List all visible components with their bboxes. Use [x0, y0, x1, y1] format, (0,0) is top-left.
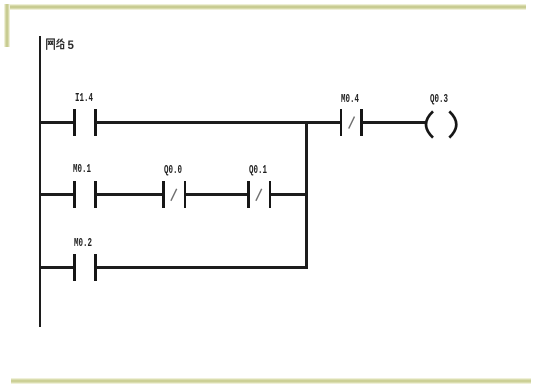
network title 网络 5: [46, 38, 76, 51]
label Q0.0: [164, 165, 192, 177]
left power rail: [39, 36, 42, 327]
decorative border left: [4, 4, 10, 47]
contact Q0.1 NC slash: [253, 186, 265, 203]
label M0.1: [73, 164, 101, 176]
contact I1.4 left bar: [73, 109, 76, 136]
rung 2 wire: M0.1 to Q0.0: [96, 193, 163, 196]
contact M0.4 right bar: [360, 109, 363, 136]
label I1.4: [75, 93, 103, 105]
decorative border bottom: [11, 378, 531, 384]
rung 2 wire: Q0.1 to junction: [271, 193, 308, 196]
label M0.4: [341, 94, 369, 106]
contact I1.4 right bar: [94, 109, 97, 136]
contact Q0.0 NC slash: [168, 186, 180, 203]
decorative border top: [5, 4, 526, 10]
contact Q0.1 right bar: [269, 181, 272, 208]
contact M0.2 right bar: [94, 254, 97, 281]
svg-text:5: 5: [68, 39, 75, 50]
junction vertical wire: [305, 121, 308, 269]
rung 2 wire: rail to M0.1: [40, 193, 75, 196]
contact M0.4 NC slash: [346, 114, 358, 131]
contact Q0.0 right bar: [184, 181, 187, 208]
rung 1 wire: M0.4 to coil: [362, 121, 427, 124]
coil Q0.3: [415, 107, 467, 143]
rung 1 wire: rail to I1.4: [40, 121, 75, 124]
label Q0.3: [430, 94, 458, 106]
contact Q0.1 left bar: [247, 181, 250, 208]
contact M0.1 left bar: [73, 181, 76, 208]
label M0.2: [74, 238, 102, 250]
contact M0.4 left bar: [340, 109, 343, 136]
contact Q0.0 left bar: [162, 181, 165, 208]
contact M0.2 left bar: [73, 254, 76, 281]
rung 1 wire: I1.4 to M0.4: [96, 121, 341, 124]
label Q0.1: [249, 165, 277, 177]
contact M0.1 right bar: [94, 181, 97, 208]
rung 3 wire: M0.2 to junction: [96, 266, 308, 269]
rung 3 wire: rail to M0.2: [40, 266, 75, 269]
rung 2 wire: Q0.0 to Q0.1: [186, 193, 249, 196]
